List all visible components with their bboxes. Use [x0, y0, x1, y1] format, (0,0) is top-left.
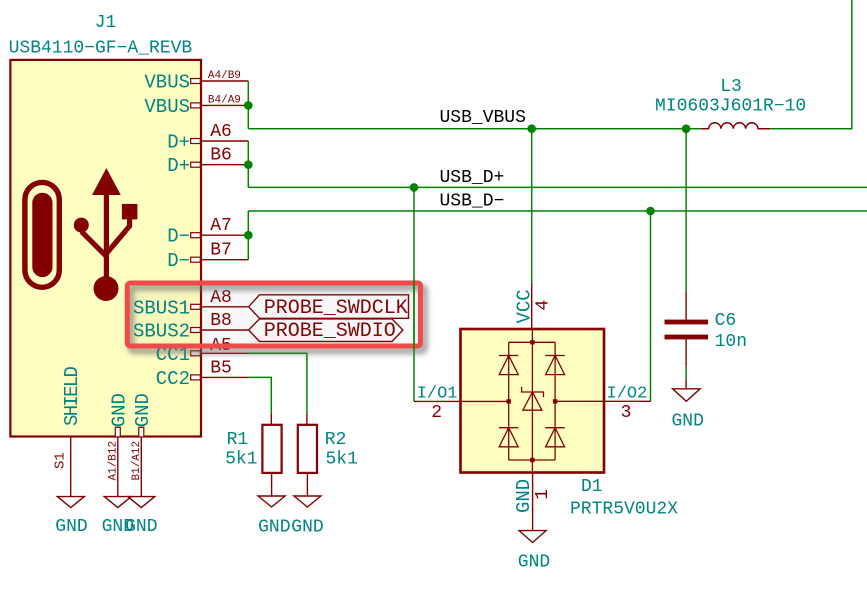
D1 internal junction right [553, 399, 557, 403]
pin SBUS1 A8 [133, 288, 248, 320]
USB trident stem [104, 193, 109, 288]
svg-text:SHIELD: SHIELD [61, 366, 83, 426]
USB trident left dot [74, 218, 89, 233]
wire USB_VBUS horizontal [248, 128, 701, 130]
junction C6 tap [682, 124, 691, 133]
wire I/O2 vertical [650, 211, 652, 401]
D1 internal left branch [508, 342, 510, 460]
USB trident bottom circle [94, 276, 119, 301]
svg-text:GND: GND [518, 553, 550, 573]
svg-text:A7: A7 [210, 216, 232, 236]
wire CC2 to R1 [248, 377, 271, 413]
svg-text:GND: GND [55, 517, 87, 537]
svg-text:3: 3 [621, 403, 632, 423]
red highlight box [127, 283, 420, 346]
svg-text:R1: R1 [227, 430, 249, 450]
wire D- pins vertical [247, 211, 249, 260]
pin CC2 B5 [156, 359, 249, 390]
D1 internal bottom rail [509, 459, 555, 461]
svg-text:GND: GND [125, 517, 157, 537]
svg-text:CC2: CC2 [156, 368, 190, 390]
capacitor C6 [665, 291, 748, 366]
wire D+ pins vertical [247, 141, 249, 187]
pin CC1 A5 [156, 336, 249, 366]
USB trident left branch [82, 232, 107, 257]
svg-text:A6: A6 [210, 122, 232, 142]
pin SHIELD S1 [53, 366, 84, 496]
USB logo inner pill [32, 193, 52, 277]
svg-text:B7: B7 [210, 241, 232, 261]
svg-text:GND: GND [132, 393, 154, 427]
svg-text:USB4110−GF−A_REVB: USB4110−GF−A_REVB [9, 38, 193, 58]
pin VBUS A4/B9 [144, 70, 248, 93]
svg-text:A1/B12: A1/B12 [107, 441, 119, 481]
wire I/O1 vertical [413, 187, 415, 401]
connector J1 body [10, 60, 201, 437]
pin D+ B6 [167, 146, 248, 178]
svg-text:GND: GND [513, 479, 535, 513]
svg-text:B6: B6 [210, 146, 232, 166]
ground symbol C6 [671, 379, 703, 431]
svg-text:MI0603J601R−10: MI0603J601R−10 [655, 97, 806, 117]
junction I/O2 tap [646, 207, 655, 216]
svg-text:B5: B5 [210, 359, 232, 379]
svg-text:10n: 10n [715, 332, 747, 352]
svg-text:5k1: 5k1 [326, 450, 358, 470]
svg-text:I/O2: I/O2 [607, 385, 648, 404]
svg-text:A4/B9: A4/B9 [208, 70, 241, 82]
svg-text:L3: L3 [720, 77, 742, 97]
pin D- B7 [167, 241, 248, 273]
svg-text:USB_VBUS: USB_VBUS [440, 108, 526, 128]
D1 internal junction bottom [530, 458, 534, 462]
svg-text:D+: D+ [167, 155, 190, 177]
inductor L3 [655, 77, 806, 129]
svg-text:R2: R2 [325, 430, 347, 450]
svg-text:GND: GND [258, 518, 290, 538]
svg-text:D−: D− [167, 250, 190, 272]
red highlight box shadow [131, 287, 425, 350]
ESD diode array D1 body [461, 329, 605, 473]
wire USB_D- horizontal [248, 210, 867, 212]
pin VBUS B4/A9 [144, 95, 248, 118]
D1 pin I/O1 2 [414, 385, 509, 424]
pin D- A7 [167, 216, 248, 248]
wire USB_D+ horizontal [248, 186, 867, 188]
svg-text:1: 1 [533, 489, 553, 500]
hierarchical label PROBE_SWDCLK [249, 295, 409, 320]
USB logo oval ring [25, 182, 59, 287]
D1 pin I/O2 3 [555, 385, 651, 423]
wire L3 to corner [770, 0, 852, 129]
pin GND B1/A12 [131, 393, 154, 497]
D1 pin VCC 4 [514, 282, 554, 329]
svg-text:D+: D+ [167, 132, 190, 154]
resistor R2 [298, 413, 358, 496]
ground symbol D1 [518, 531, 550, 573]
svg-text:B1/A12: B1/A12 [131, 441, 143, 481]
junction I/O1 tap [410, 183, 419, 192]
svg-text:D1: D1 [581, 477, 603, 497]
svg-text:USB_D+: USB_D+ [440, 168, 505, 188]
ground symbol A1/B12 [102, 497, 134, 537]
USB trident right square [122, 204, 137, 220]
junction VBUS pins [244, 101, 253, 110]
D1 internal right branch [554, 342, 556, 460]
diode top-left [499, 356, 518, 375]
D1 internal junction left [507, 399, 511, 403]
junction D- pins [244, 231, 253, 240]
svg-text:GND: GND [108, 393, 130, 427]
USB trident right branch [106, 218, 129, 254]
wire I/O1 vertical over highlight [413, 280, 415, 350]
svg-text:GND: GND [671, 412, 703, 432]
wire VBUS pins vertical [247, 81, 249, 129]
D1 internal top rail [509, 341, 555, 343]
ground symbol B1/A12 [125, 497, 157, 537]
wire VCC vertical [531, 129, 533, 283]
svg-text:5k1: 5k1 [225, 450, 257, 470]
pin SBUS2 B8 [133, 311, 248, 343]
ground symbol R1 [258, 496, 290, 538]
svg-text:J1: J1 [95, 13, 117, 33]
D1 internal center line [531, 329, 533, 473]
ground symbol shield [55, 497, 87, 537]
ground symbol R2 [291, 496, 323, 538]
svg-text:S1: S1 [53, 452, 69, 469]
svg-text:VBUS: VBUS [144, 72, 190, 94]
diode top-right [545, 356, 564, 375]
svg-text:VCC: VCC [514, 289, 536, 323]
junction VCC tap [527, 124, 536, 133]
diode bottom-left [499, 428, 518, 447]
svg-text:C6: C6 [715, 311, 737, 331]
pin D+ A6 [167, 122, 248, 154]
pin GND A1/B12 [107, 393, 130, 497]
wire CC1 to R2 [248, 353, 307, 413]
svg-text:B4/A9: B4/A9 [208, 95, 241, 107]
junction D+ pins [244, 160, 253, 169]
wire C6 to ground [685, 366, 687, 379]
D1 pin GND 1 [513, 473, 553, 531]
svg-text:D−: D− [167, 226, 190, 248]
svg-text:2: 2 [431, 403, 442, 423]
svg-text:4: 4 [533, 300, 553, 311]
D1 internal junction top [530, 340, 534, 344]
zener diode center [522, 387, 544, 410]
wire C6 vertical [685, 129, 687, 292]
diode bottom-right [545, 428, 564, 447]
svg-text:PRTR5V0U2X: PRTR5V0U2X [570, 500, 678, 520]
svg-text:VBUS: VBUS [144, 96, 190, 118]
svg-text:GND: GND [291, 518, 323, 538]
USB trident arrow [92, 168, 121, 195]
svg-text:USB_D−: USB_D− [440, 192, 505, 212]
resistor R1 [225, 413, 282, 496]
hierarchical label PROBE_SWDIO [249, 319, 403, 343]
svg-text:I/O1: I/O1 [417, 385, 458, 404]
